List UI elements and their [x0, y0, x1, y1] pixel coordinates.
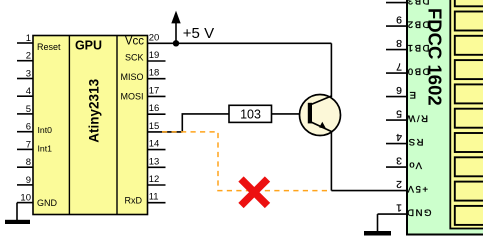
LCD character cell row 4 [455, 60, 483, 79]
wire emitter to LCD pin 2 [331, 190, 386, 192]
svg-text:11: 11 [149, 192, 159, 203]
LCD ground wire [377, 214, 379, 231]
svg-text:DB0: DB0 [406, 66, 429, 77]
svg-text:3: 3 [396, 155, 402, 167]
svg-text:SCK: SCK [125, 53, 144, 63]
svg-text:18: 18 [149, 68, 160, 79]
pin 13 stub [148, 166, 166, 168]
transistor Q1 collector lead [311, 96, 331, 105]
svg-text:Int1: Int1 [38, 144, 53, 154]
pin 2 stub [17, 60, 33, 62]
LCD pin 4 RS stub [386, 143, 407, 145]
svg-text:Reset: Reset [37, 42, 61, 52]
LCD character cell row 9 [455, 182, 483, 201]
svg-text:3: 3 [26, 69, 31, 80]
LCD pin 1 GND stub [378, 213, 408, 215]
LCD character cell row 1 [455, 0, 483, 6]
pin 17 MOSI stub [148, 95, 166, 97]
error cross mark stroke 2 [241, 179, 268, 206]
pin 8 stub [17, 166, 33, 168]
transistor Q1 base bar [308, 103, 312, 124]
svg-text:+5V: +5V [406, 183, 428, 194]
wire pin15 riser to resistor [182, 114, 229, 132]
pin 19 SCK stub [148, 60, 166, 62]
svg-text:6: 6 [396, 84, 402, 96]
svg-text:Int0: Int0 [38, 125, 53, 135]
svg-text:RS: RS [407, 136, 423, 147]
pin 9 stub [17, 184, 33, 186]
transistor Q1 emitter lead [311, 122, 331, 132]
+5V supply arrowhead [171, 11, 180, 24]
error cross mark stroke 1 [241, 179, 268, 206]
svg-text:DB3: DB3 [406, 0, 429, 6]
pin 7 Int1 stub [17, 148, 33, 150]
svg-text:9: 9 [396, 14, 402, 26]
svg-text:9: 9 [26, 175, 31, 186]
pin 5 stub [17, 113, 33, 115]
LCD character cell row 7 [455, 133, 483, 152]
LCD character cell row 5 [455, 84, 483, 103]
LCD pin 10 DB3 stub [386, 2, 407, 4]
transistor Q1 emitter arrowhead [319, 122, 326, 129]
svg-text:4: 4 [396, 131, 402, 143]
LCD character cell row 10 [455, 206, 483, 225]
svg-text:+5 V: +5 V [183, 25, 214, 42]
svg-text:10: 10 [20, 193, 31, 204]
IC U1 Atiny2313 body [33, 36, 148, 215]
svg-text:16: 16 [149, 103, 160, 114]
svg-text:1: 1 [26, 33, 31, 44]
svg-text:Vo: Vo [408, 160, 422, 171]
svg-text:8: 8 [26, 157, 31, 168]
svg-text:5: 5 [396, 108, 402, 120]
IC ground wire [16, 203, 18, 220]
svg-text:E: E [408, 89, 416, 100]
pin 14 stub [148, 149, 166, 151]
proposed wire pin15 to +5V net (orange dashed) [162, 132, 331, 191]
svg-text:GPU: GPU [75, 39, 102, 53]
svg-text:15: 15 [149, 121, 160, 132]
pin 12 stub [148, 184, 166, 186]
LCD pin 9 DB2 stub [386, 25, 407, 27]
LCD module U2 body [407, 0, 483, 235]
LCD pin 5 R/W stub [386, 119, 407, 121]
LCD pin 3 Vo stub [386, 166, 407, 168]
pin 6 Int0 stub [17, 131, 33, 133]
resistor R1 body [229, 105, 272, 122]
LCD pin 7 DB0 stub [386, 72, 407, 74]
pin 3 stub [17, 78, 33, 80]
svg-text:MOSI: MOSI [120, 92, 143, 102]
svg-text:2: 2 [26, 51, 31, 62]
svg-text:RxD: RxD [125, 196, 143, 206]
svg-text:GND: GND [406, 207, 432, 218]
LCD character cell row 8 [455, 157, 483, 176]
pin 20 Vcc stub and +5V rail wire [148, 42, 332, 44]
svg-text:1: 1 [396, 202, 402, 214]
pin 18 MISO stub [148, 78, 166, 80]
LCD character cell row 6 [455, 109, 483, 128]
IC internal divider left [68, 36, 70, 215]
svg-text:19: 19 [149, 50, 160, 61]
LCD pin 6 E stub [386, 96, 407, 98]
svg-text:DB1: DB1 [406, 42, 429, 53]
pin 16 stub [148, 113, 166, 115]
svg-text:7: 7 [396, 61, 402, 73]
LCD ground symbol [364, 231, 391, 236]
LCD character cell row 3 [455, 36, 483, 55]
IC ground symbol [5, 220, 30, 224]
svg-text:14: 14 [149, 139, 160, 150]
+5V supply arrow stem [175, 13, 177, 43]
svg-text:2: 2 [396, 178, 402, 190]
svg-text:20: 20 [149, 32, 160, 43]
LCD pin 2 +5V stub [386, 190, 407, 192]
wire +5V rail to collector [330, 43, 332, 97]
pin 1 Reset stub [17, 42, 33, 44]
svg-text:12: 12 [149, 174, 160, 185]
svg-text:7: 7 [26, 139, 31, 150]
svg-text:Atiny2313: Atiny2313 [86, 78, 101, 142]
pin 15 stub wire to resistor riser [148, 131, 183, 133]
svg-text:Vcc: Vcc [125, 35, 144, 47]
IC internal divider right [116, 36, 118, 215]
svg-text:R/W: R/W [405, 113, 428, 124]
svg-text:MISO: MISO [120, 72, 143, 82]
wire emitter down [330, 132, 332, 191]
svg-text:GND: GND [37, 198, 58, 208]
svg-text:6: 6 [26, 122, 31, 133]
LCD character cell row 2 [455, 12, 483, 31]
pin 10 GND stub [17, 202, 33, 204]
transistor Q1 body circle [300, 95, 341, 136]
pin 4 stub [17, 95, 33, 97]
svg-text:5: 5 [26, 104, 31, 115]
+5V supply junction dot [173, 40, 179, 46]
svg-text:103: 103 [240, 108, 261, 122]
svg-text:DB2: DB2 [406, 19, 429, 30]
svg-text:13: 13 [149, 156, 160, 167]
pin 11 RxD stub [148, 202, 166, 204]
LCD screen bezel [450, 0, 483, 229]
svg-text:8: 8 [396, 37, 402, 49]
svg-text:17: 17 [149, 85, 160, 96]
LCD pin 8 DB1 stub [386, 49, 407, 51]
wire resistor to transistor base [272, 113, 308, 115]
svg-text:4: 4 [26, 86, 31, 97]
